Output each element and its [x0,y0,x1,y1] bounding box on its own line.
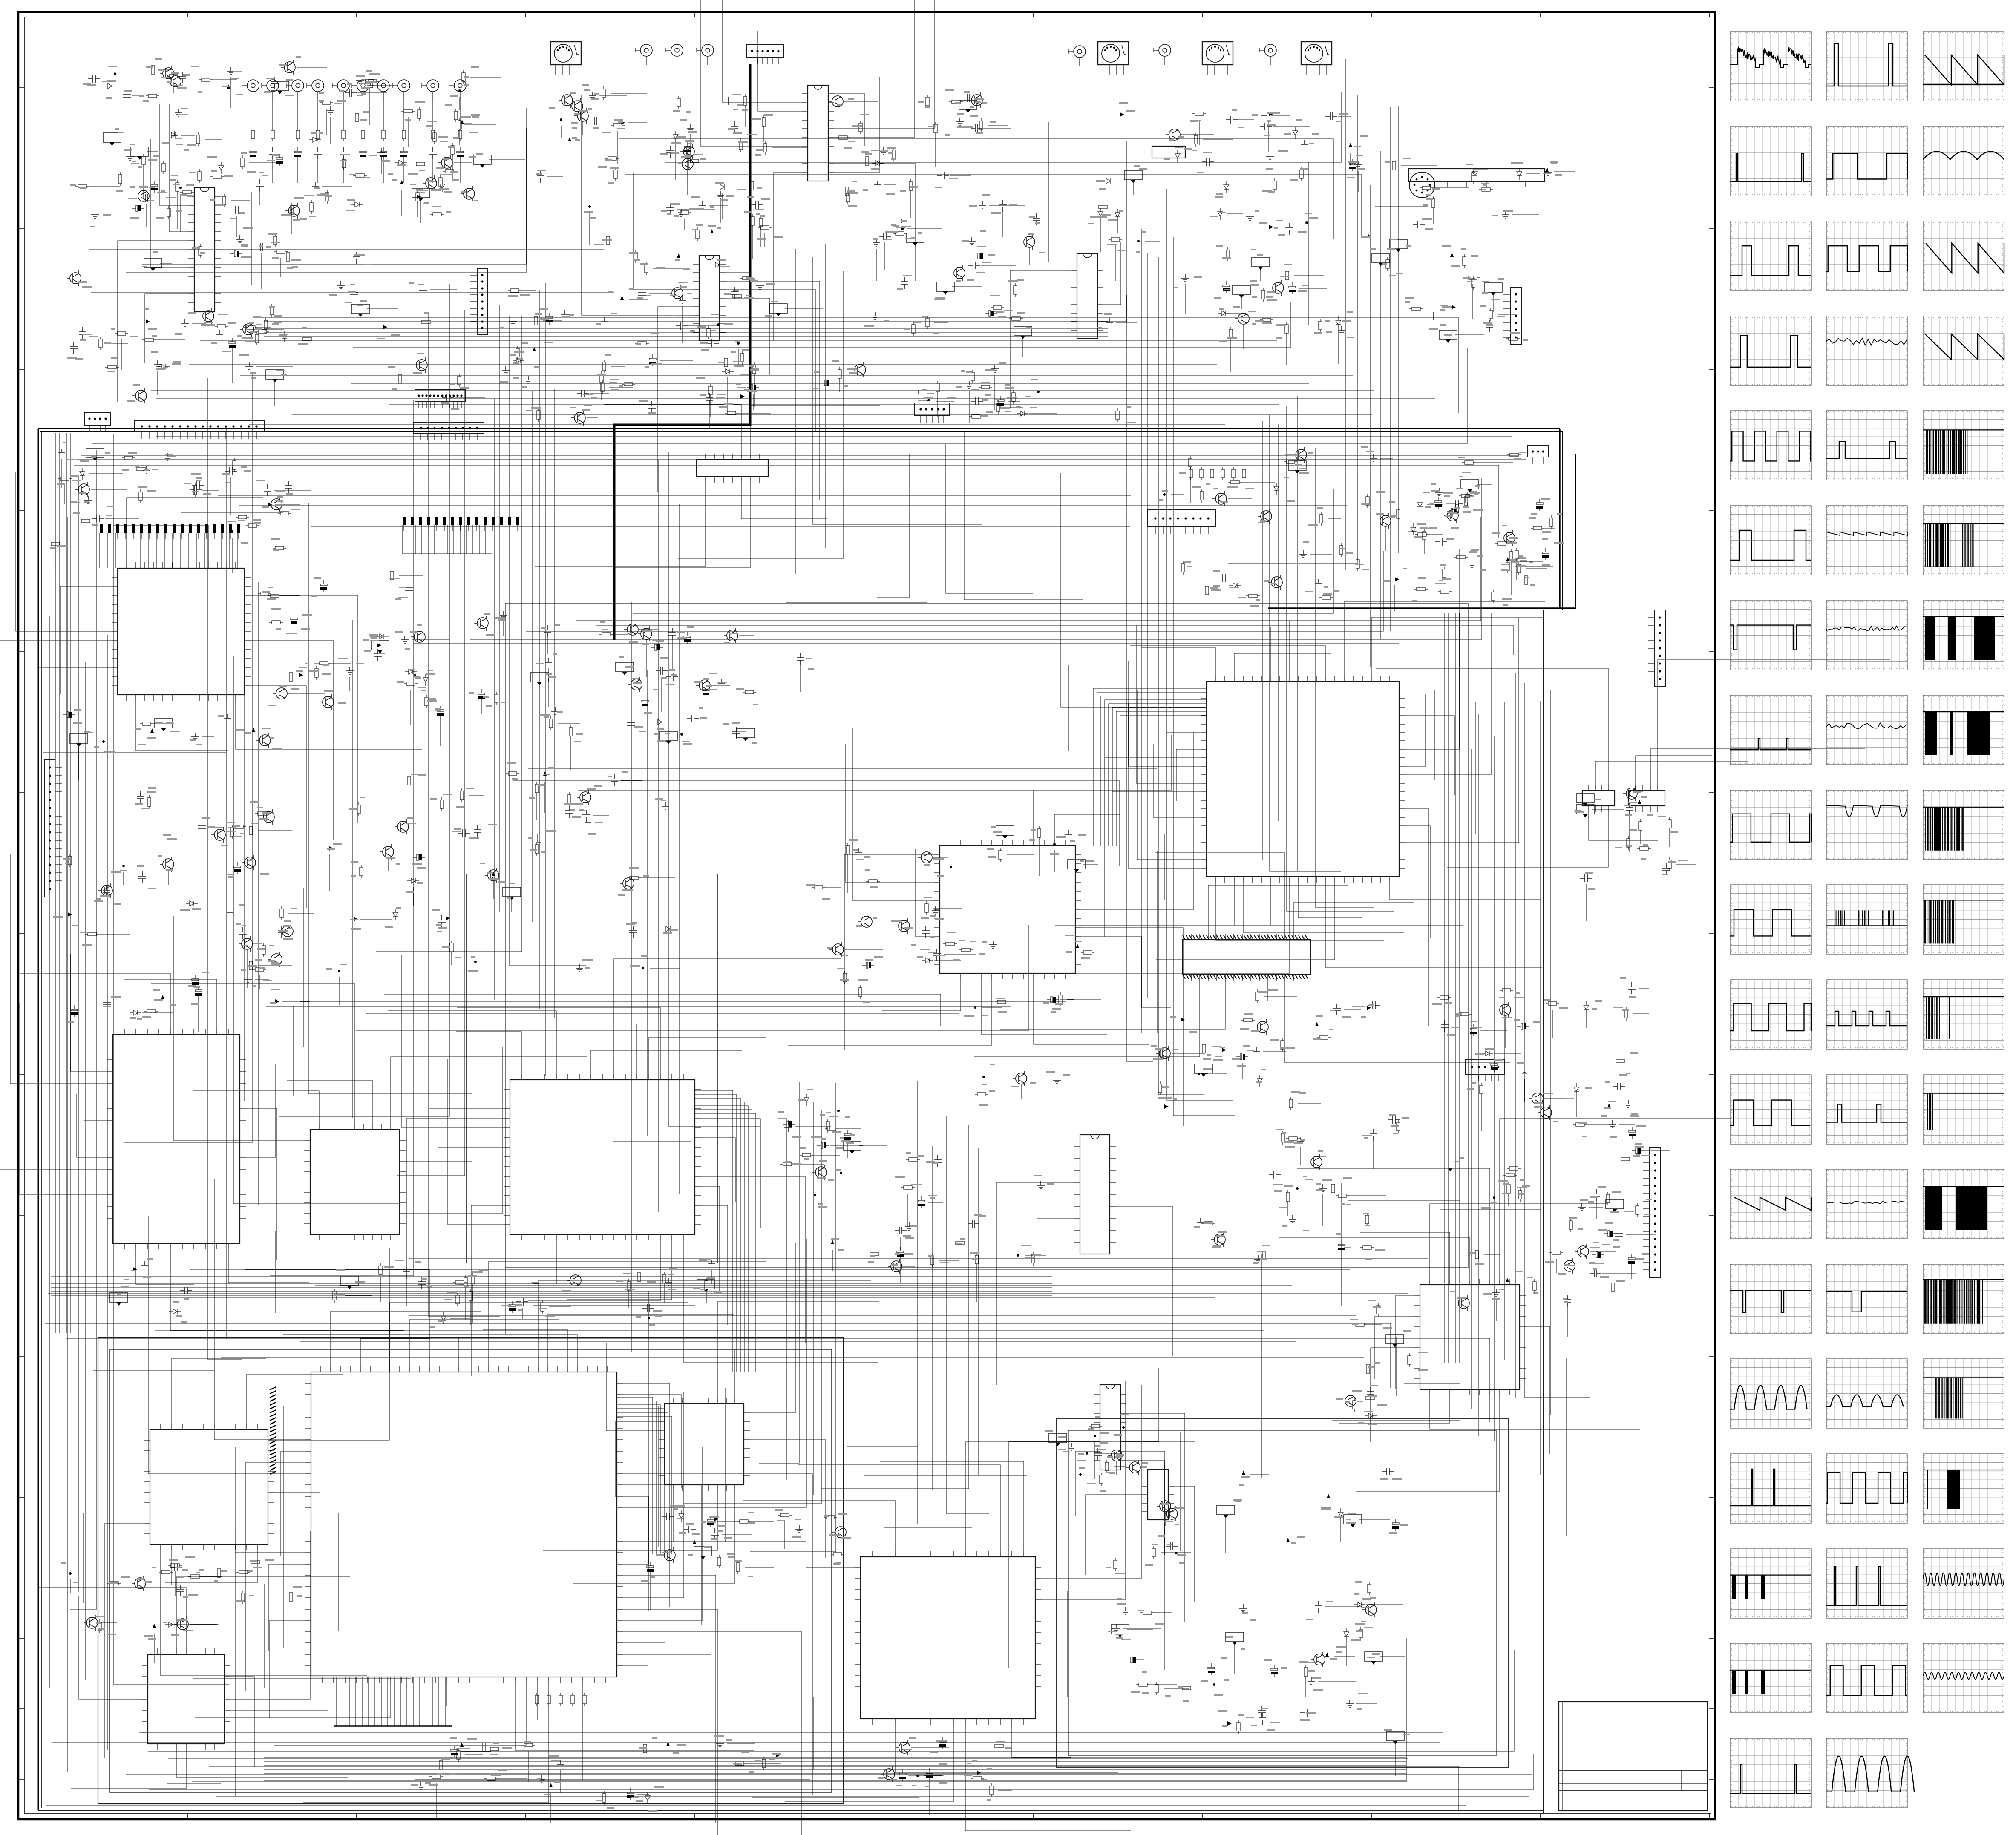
transistor Q67 [1564,1260,1575,1271]
resistor R235 [1503,1173,1517,1177]
wire [832,1250,833,1271]
connector J12 [671,44,683,56]
resistor R184 [1549,515,1553,529]
capacitor C117 [862,962,874,968]
resistor R224 [943,942,957,946]
net label N41 [1049,1433,1067,1443]
resistor R24 [418,107,421,121]
arrow [714,1517,719,1521]
wire [1298,1103,1321,1104]
resistor R253 [469,1289,472,1303]
capacitor C90 [1218,574,1230,582]
transistor Q79 [86,1617,98,1628]
wire [1439,316,1460,316]
node [474,961,477,963]
wire [251,686,306,908]
wire [543,320,562,321]
wire [213,79,237,80]
capacitor C88 [1542,548,1549,560]
wire [950,950,950,977]
wire [513,781,1120,866]
wire [451,953,452,965]
wire [1385,527,1386,551]
wire [1054,850,1055,872]
wire [472,1286,473,1323]
resistor R133 [278,512,291,515]
wire [785,1725,954,1801]
wire [535,483,706,566]
wire [910,1775,942,1776]
wire [429,1109,504,1230]
wire [356,925,1028,1031]
resistor R124 [1472,276,1475,290]
section box [98,1337,844,1804]
wire [209,1766,1459,1811]
wire [272,100,273,128]
resistor R139 [193,483,197,497]
diode D49 [1354,1602,1365,1607]
wire [1540,701,1541,1475]
ground [126,152,134,160]
capacitor C123 [1593,1189,1600,1201]
value labels [262,578,506,710]
wire [844,101,878,102]
wire [1190,469,1191,503]
node [1198,1073,1200,1075]
connector CN8 [84,412,111,425]
resistor R113 [1192,112,1206,115]
wire [847,1142,848,1158]
wire [403,100,404,128]
capacitor C134 [418,1277,426,1289]
wire [1619,1124,1635,1125]
wire [253,159,253,183]
wire [146,204,147,227]
wire [412,639,449,640]
transistor Q47 [214,829,225,840]
resistor R214 [846,843,850,857]
arrow [1269,225,1273,229]
resistor R54 [274,250,288,253]
node [1296,1187,1299,1190]
wire [1405,716,1454,795]
diode D45 [1365,1413,1377,1418]
arrow [1506,557,1509,561]
ground [141,1261,148,1265]
resistor R260 [471,1273,475,1286]
resistor R275 [826,1119,829,1133]
ground [1492,1289,1500,1296]
wire [461,1751,491,1752]
resistor R271 [800,1153,813,1157]
net label N5 [412,188,430,198]
resistor R132 [139,489,142,503]
arrow [710,229,714,233]
resistor R203 [627,876,641,880]
resistor R3 [296,128,300,141]
resistor R57 [105,365,119,369]
wire [864,1148,978,1475]
resistor R307 [778,1513,792,1517]
wire [1516,561,1517,580]
capacitor C10 [457,147,464,159]
transistor Q91 [574,412,585,423]
wire [1375,187,1428,207]
wire [360,86,360,115]
wire [420,199,421,223]
resistor R55 [215,325,228,328]
wire [151,390,1374,391]
wire [167,1750,221,1783]
resistor R89 [926,95,929,108]
arrow [677,253,680,258]
resistor R90 [912,322,915,336]
wire [266,1007,1011,1150]
wire [1039,839,1040,876]
wire [876,249,877,281]
wire [343,159,344,183]
net label N14 [1124,170,1142,180]
wire [1430,1395,1640,1429]
ground [1346,1700,1354,1707]
capacitor C41 [751,201,763,209]
wire [171,1359,266,1424]
IC U24 (DIP) [1582,791,1615,806]
wire [180,135,214,135]
wire [578,735,1172,790]
diode D11 [673,131,678,143]
net label N10 [936,282,954,291]
arrow [1367,234,1371,238]
wire [907,221,933,221]
wire [274,1408,320,1492]
wire [331,1311,481,1366]
wire [230,1531,310,1699]
arrow [533,347,536,351]
wire [1155,853,1285,934]
capacitor C59 [1202,158,1214,166]
wire [1243,883,1404,932]
wire [259,975,260,989]
resistor R171 [1464,494,1468,508]
ground [367,81,374,89]
diode D50 [1344,1628,1349,1640]
ground [601,317,608,321]
wire [558,723,580,724]
resistor R20 [176,180,179,194]
wire [1157,851,1201,1033]
wire [1508,1195,1509,1206]
wire [599,95,627,96]
resistor R278 [1281,1131,1284,1145]
wire [591,1050,742,1074]
wire [726,281,820,500]
arrow [568,137,571,141]
resistor R95 [859,121,862,134]
resistor R44 [454,109,458,122]
capacitor C99 [192,975,199,987]
transistor Q18 [682,158,693,170]
ground [932,906,939,914]
wire [1228,95,1358,563]
wire [363,159,363,183]
wire [623,1632,802,1835]
resistor R92 [1009,317,1023,320]
wire [297,159,298,183]
resistor R4 [316,128,320,141]
wire [108,1297,1215,1298]
wire [1153,744,1201,817]
resistor R238 [1507,1182,1510,1196]
wire [353,302,1290,348]
wire [91,292,614,293]
transistor Q73 [1016,1073,1027,1084]
wire [1405,244,1436,244]
wire [1041,1385,1141,1579]
ground [327,106,334,114]
ground [585,818,591,822]
resistor R359 [971,370,974,383]
arrow [1181,1018,1185,1022]
capacitor C135 [180,1287,192,1294]
arrow [543,771,547,776]
ground [1319,1184,1327,1192]
wire [181,135,195,136]
connector CN6 [134,421,264,432]
capacitor C146 [1269,1171,1281,1179]
capacitor C24 [442,394,454,401]
wire [297,671,297,1329]
wire [515,1683,754,1750]
wire [1120,121,1120,139]
wire [112,373,112,405]
wire [786,423,927,602]
resistor R294 [217,1566,221,1580]
capacitor C69 [63,712,75,718]
wire [903,1266,915,1267]
wire [428,314,500,1316]
wire [93,1371,214,1424]
capacitor C161 [899,1769,906,1781]
diode D22 [1336,316,1341,328]
wire [880,1461,1024,1551]
ground [502,366,510,374]
ground [557,1760,564,1764]
resistor R195 [85,932,99,936]
wire [623,1643,665,1740]
arrow [666,1742,670,1746]
IC U22 (DIP) [1148,1470,1168,1520]
wire [403,159,404,183]
wire [743,1501,896,1551]
resistor R185 [1459,494,1472,498]
capacitor C184 [821,380,832,386]
resistor R345 [508,289,521,292]
wire [1589,812,1658,840]
resistor R341 [602,360,606,373]
bus wires [1093,688,1207,846]
arrow [400,180,403,184]
wire [107,635,108,1750]
IC U15 (QFP) [1420,1285,1520,1389]
resistor R147 [268,594,282,598]
ground [1112,1624,1120,1632]
wire [596,626,1514,655]
wire [684,1110,821,1504]
net label N31 [503,887,521,897]
ground [84,496,92,504]
wire [1037,991,1074,1218]
wire [1631,1266,1632,1279]
wire [623,1654,711,1823]
wire [1007,854,1034,855]
connector CN14 [1527,446,1549,457]
wire [1008,401,1020,402]
wire [406,1182,505,1334]
net label N17 [1372,253,1390,263]
wire [60,586,112,694]
wire [1550,690,1551,1415]
resistor R209 [506,772,519,775]
wire [160,263,172,264]
wire [548,668,549,707]
transistor Q57 [397,821,409,832]
net label N21 [86,448,104,457]
wire [388,858,389,871]
wire [1334,1656,1355,1657]
wire [717,1302,879,1398]
wire [1405,702,1475,834]
resistor R229 [1241,1018,1255,1022]
wire [1346,1640,1347,1666]
transistor Q52 [101,885,112,896]
wire [763,128,764,142]
wire [1133,181,1134,195]
resistor R170 [1517,562,1521,575]
wire [658,307,693,492]
resistor R69 [758,226,772,229]
wire [544,782,545,813]
wire [726,290,816,432]
node [840,1172,842,1174]
node [163,834,166,836]
transistor Q15 [577,110,588,121]
ground [1253,1047,1260,1052]
wire [1362,736,1495,1441]
resistor R175 [1356,557,1359,571]
wire [516,1024,637,1074]
wire [590,393,609,394]
wire [436,1783,437,1819]
wire [337,452,337,1084]
wire [932,1146,933,1490]
wire [750,405,880,454]
capacitor C144 [817,1142,829,1148]
wire [1174,1486,1195,1602]
resistor R61 [270,304,274,317]
diode D21 [1098,208,1103,220]
wire [272,159,273,183]
wire [409,1315,1356,1316]
transistor Q42 [1271,577,1282,588]
capacitor C109 [413,854,425,860]
wire [360,1232,1359,1274]
connector J11 [640,44,652,56]
ground [1578,1203,1586,1211]
wire [258,965,292,966]
wire [167,1625,219,1648]
diode D28 [423,674,428,686]
transistor Q5 [426,178,437,189]
node [837,1110,840,1112]
wire [1323,1162,1341,1162]
wire [1054,814,1120,840]
value labels [70,57,483,227]
wire [1636,756,1712,785]
wire [1075,1451,1094,1516]
capacitor C89 [1435,497,1442,509]
resistor R87 [845,184,849,198]
net label N49 [1576,805,1594,814]
resistor R267 [975,1093,988,1096]
wire [352,620,353,1118]
capacitor C13 [276,154,283,166]
wire [180,194,181,232]
wire [1297,396,1298,871]
wire [459,97,460,110]
wire [1405,694,1426,766]
diode D53 [513,358,524,363]
resistor R17 [353,174,367,177]
wire [37,519,112,667]
capacitor C101 [103,886,110,897]
diode D2 [309,137,321,142]
transistor Q12 [135,390,147,401]
wire [369,87,370,125]
capacitor C125 [1491,1060,1498,1072]
capacitor C128 [1441,1020,1449,1032]
wire [274,1683,526,1745]
resistor R309 [1100,1473,1103,1486]
capacitor C145 [1388,1116,1400,1124]
capacitor C121 [1517,1023,1529,1029]
wire [10,854,107,1084]
wire [155,1211,1264,1331]
wire [323,588,323,1113]
resistor R276 [1397,1120,1400,1133]
wire [357,92,387,93]
wire [511,898,512,912]
resistor R315 [457,1748,460,1762]
wire [1512,214,1539,215]
resistor R268 [825,1127,838,1130]
wire [709,205,728,206]
resistor R290 [1363,1396,1377,1400]
net label N26 [660,731,677,741]
capacitor C19 [123,90,131,102]
wire [1041,1381,1125,1600]
wire [738,349,739,367]
diode D31 [1229,583,1241,588]
wire [1285,981,1510,1063]
capacitor C53 [1289,282,1296,294]
ground [500,611,507,618]
resistor R35 [443,170,456,173]
wire [1190,627,1271,676]
wire [834,94,865,146]
wire [1174,1254,1262,1478]
capacitor C48 [879,233,891,240]
